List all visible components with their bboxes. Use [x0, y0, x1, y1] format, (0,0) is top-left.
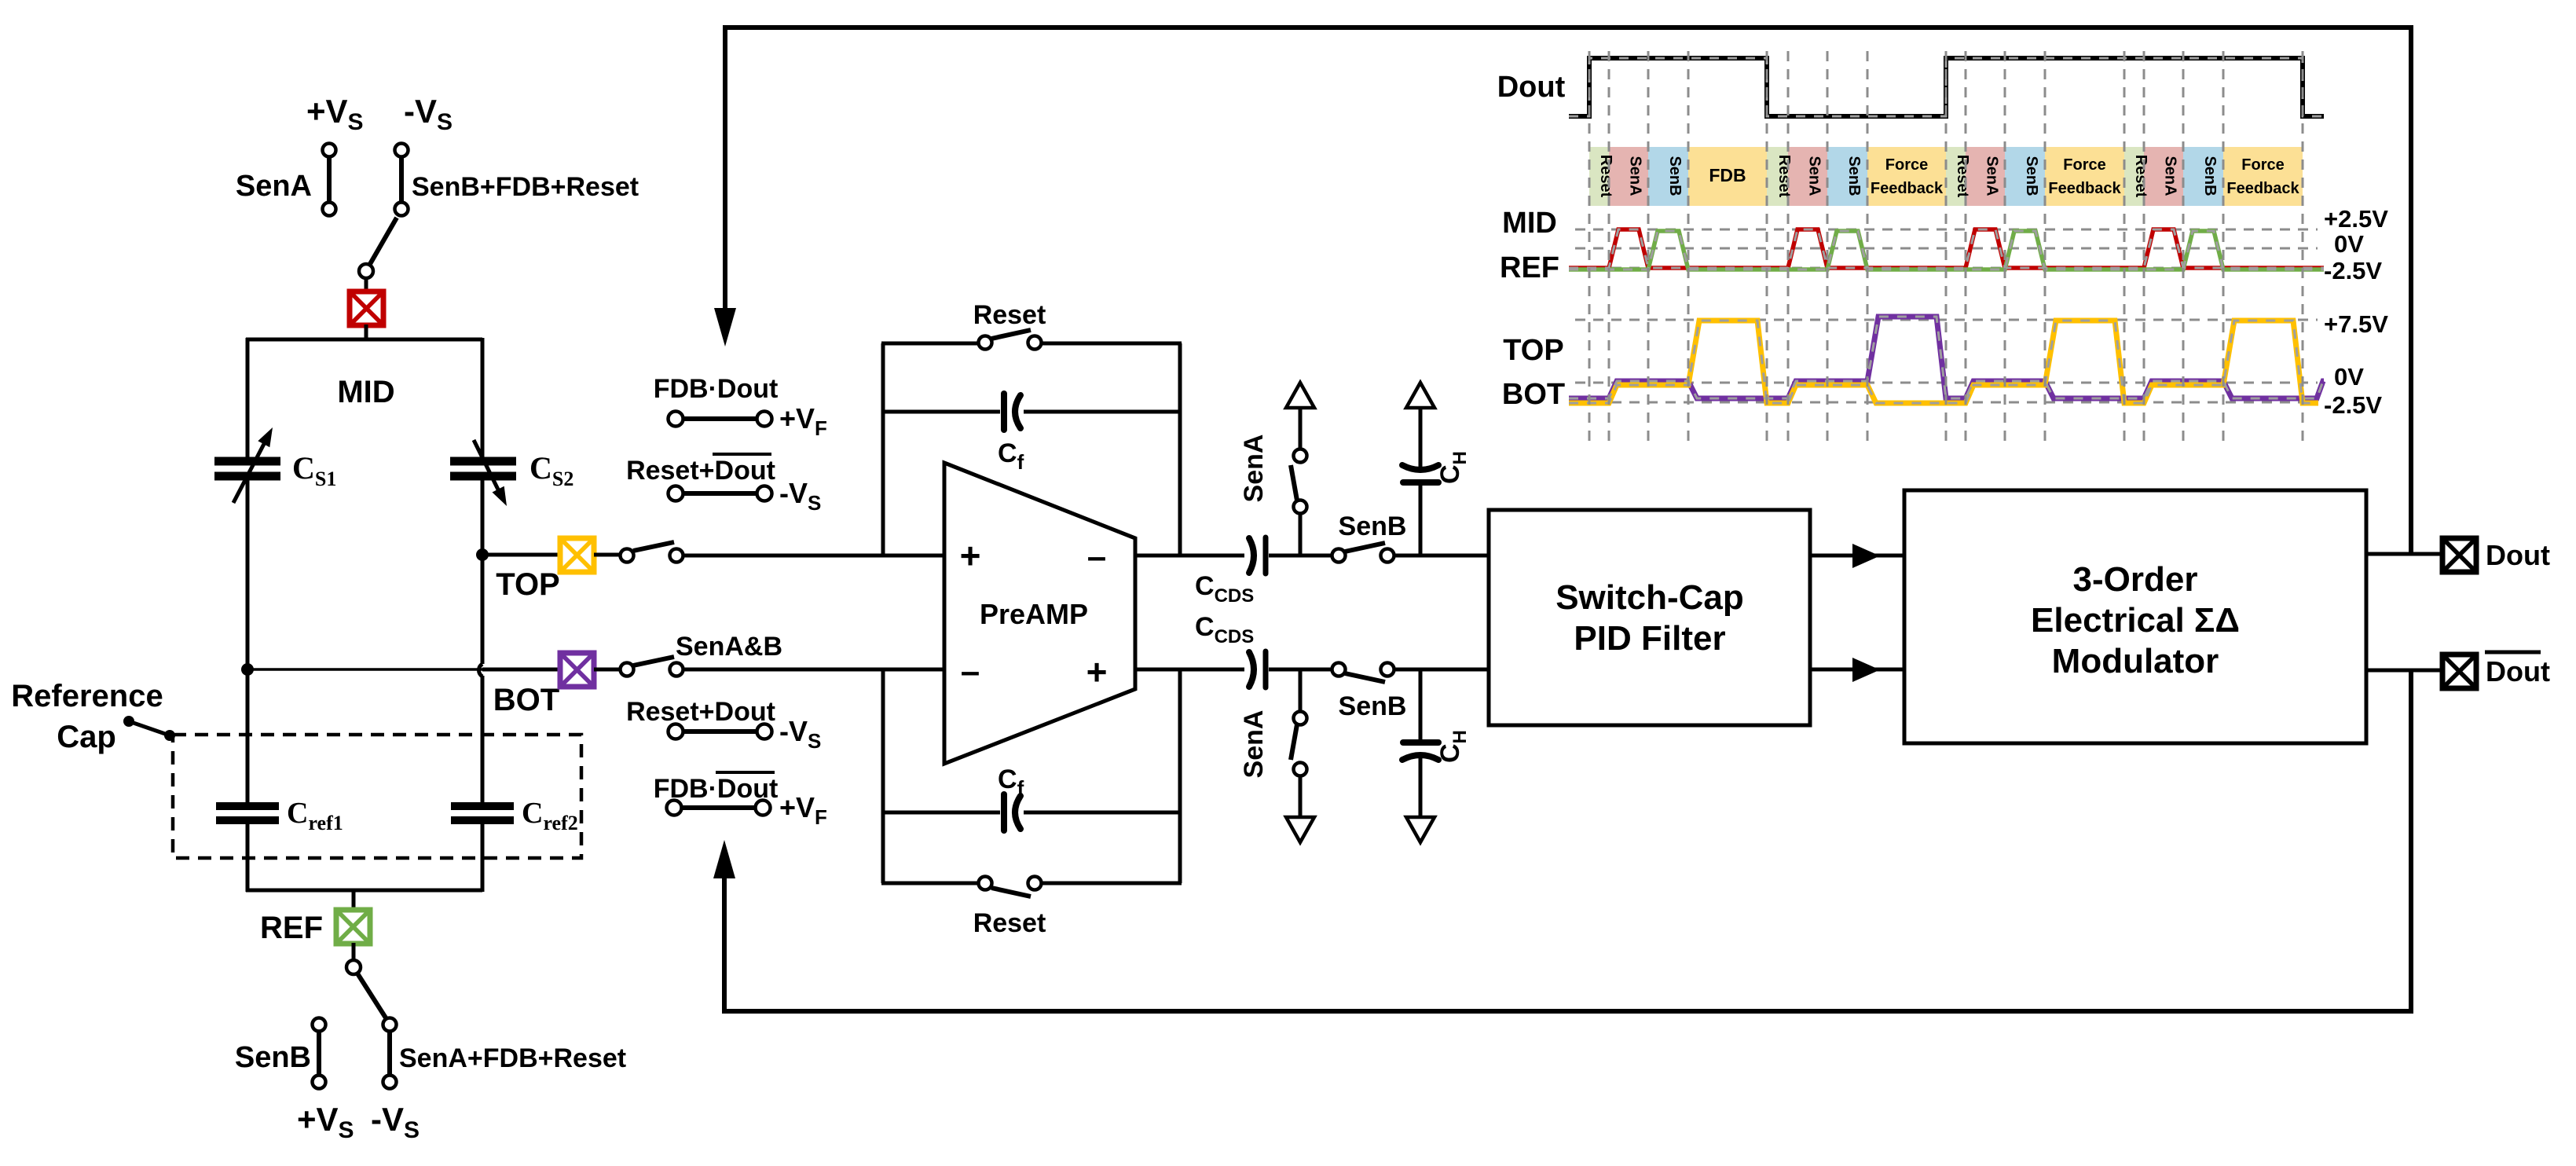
- wire TOP to preamp: [683, 554, 944, 558]
- supply arrow (bottom, SenA): [1286, 817, 1314, 842]
- svg-text:SenB: SenB: [1339, 691, 1407, 721]
- svg-text:TOP: TOP: [496, 567, 560, 602]
- svg-text:Reset: Reset: [2132, 155, 2149, 198]
- wire left branch vertical: [246, 338, 250, 892]
- reference cap dashed box: [173, 735, 581, 858]
- switch SenA (top rail): [1291, 406, 1307, 555]
- wire TOP to pad: [482, 553, 561, 557]
- svg-text:–: –: [961, 652, 980, 691]
- svg-text:SenA: SenA: [1806, 156, 1823, 196]
- wire pad to selector: [352, 943, 356, 961]
- svg-text:+7.5V: +7.5V: [2324, 310, 2388, 338]
- timing trace TOP (yellow): [1569, 321, 2318, 403]
- switch SenB+FDB+Reset (top, -Vs): [395, 144, 409, 216]
- svg-text:SenB: SenB: [2201, 156, 2219, 196]
- svg-text:BOT: BOT: [493, 683, 559, 717]
- timing trace MID (red): [1569, 229, 2324, 268]
- switch SenB (bottom): [1332, 663, 1394, 683]
- op-amp PreAMP: [944, 463, 1135, 764]
- svg-text:Dout: Dout: [1497, 71, 1566, 104]
- label Reference Cap: [11, 679, 163, 754]
- svg-text:Reset: Reset: [1597, 155, 1614, 198]
- switch on BOT wire: [594, 657, 683, 676]
- svg-text:Reset+Dout: Reset+Dout: [626, 697, 775, 727]
- timing trace BOT dashed overlay: [1569, 317, 2324, 398]
- wire feedback box right vertical (bottom): [1178, 669, 1182, 883]
- svg-text:SenB: SenB: [1845, 156, 1863, 196]
- svg-text:Force: Force: [2241, 156, 2284, 174]
- svg-text:PID Filter: PID Filter: [1574, 619, 1725, 658]
- svg-text:SenA: SenA: [1239, 434, 1269, 503]
- svg-text:+: +: [1086, 651, 1108, 692]
- label CH (top): [1435, 451, 1471, 484]
- node TOP junction: [476, 548, 489, 561]
- svg-text:Feedback: Feedback: [2226, 180, 2299, 197]
- pad REF (green): [336, 910, 370, 944]
- svg-text:SenB: SenB: [1339, 511, 1407, 541]
- reference cap pointer: [123, 716, 175, 741]
- block Switch-Cap PID Filter: [1489, 510, 1810, 725]
- timing grid horizontal: [1575, 229, 2318, 402]
- switch SenA (bottom rail): [1291, 669, 1307, 819]
- switch SenA (top, +Vs): [323, 144, 336, 216]
- svg-text:Reset: Reset: [973, 300, 1046, 330]
- timing trace Dout: [1569, 58, 2324, 116]
- pad BOT (purple): [560, 653, 594, 687]
- capacitor CH (top): [1402, 406, 1438, 555]
- label CH (bottom): [1435, 730, 1471, 763]
- svg-text:SenA+FDB+Reset: SenA+FDB+Reset: [399, 1043, 626, 1073]
- timing trace REF dashed overlay: [1569, 231, 2324, 269]
- svg-text:Reference: Reference: [11, 679, 163, 713]
- svg-text:BOT: BOT: [1502, 378, 1565, 411]
- svg-text:FDB·Dout: FDB·Dout: [654, 374, 779, 404]
- supply arrow (bottom, CH): [1406, 817, 1435, 842]
- supply arrow (top, CH): [1406, 383, 1435, 408]
- svg-text:Force: Force: [1885, 156, 1928, 174]
- wire feedback box left vertical (top): [881, 343, 885, 555]
- svg-text:REF: REF: [260, 911, 323, 945]
- capacitor CCDS (top): [1249, 537, 1266, 574]
- svg-text:+: +: [960, 535, 981, 576]
- pad TOP (yellow): [560, 538, 594, 572]
- svg-text:+2.5V: +2.5V: [2324, 205, 2388, 233]
- svg-text:Dout: Dout: [2486, 655, 2550, 687]
- svg-text:0V: 0V: [2334, 230, 2364, 258]
- timing trace TOP dashed overlay: [1569, 321, 2318, 403]
- svg-text:REF: REF: [1500, 251, 1559, 284]
- svg-text:SenA: SenA: [2162, 156, 2179, 196]
- wire BOT to preamp: [683, 668, 944, 672]
- switch FDB*Doutbar to +VF: [654, 772, 779, 816]
- label Doutbar: [2485, 652, 2550, 687]
- capacitor Cref2: [451, 806, 514, 820]
- node BOT junction: [241, 663, 254, 676]
- REF selector arm: [346, 960, 387, 1019]
- wire MID top plate: [246, 338, 482, 342]
- svg-text:Feedback: Feedback: [1871, 180, 1944, 197]
- wire pad to MID plate: [365, 324, 368, 339]
- wire selector to MID pad: [365, 278, 368, 292]
- svg-text:SenB+FDB+Reset: SenB+FDB+Reset: [412, 172, 639, 202]
- svg-text:SenB: SenB: [2023, 156, 2040, 196]
- wire BOT horizontal: [247, 668, 561, 671]
- switch Reset+Dout to -VS: [626, 697, 775, 739]
- wire modulator out Dout: [2366, 552, 2443, 556]
- switch FDB*Dout to +VF: [654, 374, 779, 427]
- svg-text:SenB: SenB: [1666, 156, 1684, 196]
- switch SenB (bottom, +Vs): [313, 1018, 326, 1089]
- capacitor CCDS (bottom): [1249, 651, 1266, 687]
- timing trace REF (green): [1569, 231, 2324, 269]
- svg-text:SenB: SenB: [235, 1041, 311, 1074]
- MID selector arm: [359, 218, 397, 278]
- svg-text:SenA: SenA: [1627, 156, 1644, 196]
- svg-text:TOP: TOP: [1503, 334, 1563, 367]
- switch Reset+Doutbar to -VS: [626, 454, 775, 501]
- svg-text:Reset: Reset: [1954, 155, 1971, 198]
- wire bottom plate REF: [246, 889, 482, 893]
- wire feedback box right vertical (top): [1178, 343, 1182, 555]
- wire PID to modulator (bottom) with arrow: [1810, 658, 1904, 682]
- svg-text:0V: 0V: [2334, 363, 2364, 390]
- svg-text:-2.5V: -2.5V: [2324, 257, 2382, 284]
- capacitor CH (bottom): [1402, 669, 1438, 819]
- capacitor CS2 (variable): [450, 440, 516, 506]
- wire feedback bottom (Doutbar to FDB switches): [713, 670, 2411, 1011]
- svg-text:SenA&B: SenA&B: [676, 632, 782, 662]
- timing grid vertical: [1589, 51, 2303, 444]
- switch Reset (top feedback): [881, 300, 1182, 350]
- svg-text:Reset: Reset: [1775, 155, 1793, 198]
- timing trace Dout dashed overlay: [1569, 58, 2324, 116]
- switch Reset (bottom feedback): [881, 877, 1182, 939]
- svg-text:Feedback: Feedback: [2048, 180, 2121, 197]
- svg-text:–: –: [1087, 537, 1106, 576]
- capacitor Cref1: [216, 806, 279, 820]
- capacitor Cf (top feedback): [881, 394, 1182, 430]
- pad Dout: [2442, 538, 2476, 572]
- supply arrow (top, SenA): [1286, 383, 1314, 408]
- svg-text:Switch-Cap: Switch-Cap: [1555, 578, 1744, 617]
- switch SenB (top): [1332, 543, 1394, 563]
- svg-text:Cap: Cap: [57, 720, 116, 754]
- svg-text:3-Order: 3-Order: [2073, 560, 2198, 599]
- timing phase labels: [1597, 155, 2299, 198]
- wire feedback top (Dout to FDB switches): [714, 27, 2411, 554]
- timing trace MID dashed overlay: [1569, 229, 2324, 268]
- svg-text:Dout: Dout: [2486, 539, 2550, 571]
- pad MID (red): [350, 291, 383, 325]
- wire preamp out top: [1135, 554, 1490, 558]
- svg-text:PreAMP: PreAMP: [980, 598, 1088, 630]
- wire PID to modulator (top) with arrow: [1810, 544, 1904, 568]
- svg-text:SenA: SenA: [1984, 156, 2001, 196]
- svg-text:SenA: SenA: [236, 170, 312, 203]
- svg-text:Electrical ΣΔ: Electrical ΣΔ: [2031, 601, 2240, 640]
- capacitor CS1 (variable): [214, 427, 280, 503]
- block 3-Order Electrical SD Modulator: [1904, 490, 2366, 743]
- svg-text:-2.5V: -2.5V: [2324, 391, 2382, 419]
- svg-text:Modulator: Modulator: [2052, 642, 2219, 680]
- switch on TOP wire: [594, 542, 683, 563]
- wire right branch vertical: [479, 338, 483, 892]
- switch SenA+FDB+Reset (bottom, -Vs): [383, 1018, 397, 1089]
- timing trace BOT (purple): [1569, 317, 2324, 398]
- wire preamp out bottom: [1135, 668, 1490, 672]
- svg-text:MID: MID: [337, 375, 394, 409]
- svg-text:Force: Force: [2063, 156, 2105, 174]
- svg-text:FDB: FDB: [1709, 165, 1746, 185]
- svg-text:MID: MID: [1502, 207, 1557, 240]
- svg-text:Reset: Reset: [973, 908, 1046, 938]
- wire feedback box left vertical (bottom): [881, 669, 885, 883]
- svg-text:SenA: SenA: [1239, 710, 1269, 779]
- svg-text:Reset+Dout: Reset+Dout: [626, 456, 775, 486]
- wire modulator out Doutbar: [2366, 669, 2443, 673]
- wire REF stub: [352, 890, 356, 911]
- pad Doutbar: [2442, 654, 2476, 688]
- timing phase bands: [1589, 147, 2303, 206]
- capacitor Cf (bottom feedback): [881, 794, 1182, 830]
